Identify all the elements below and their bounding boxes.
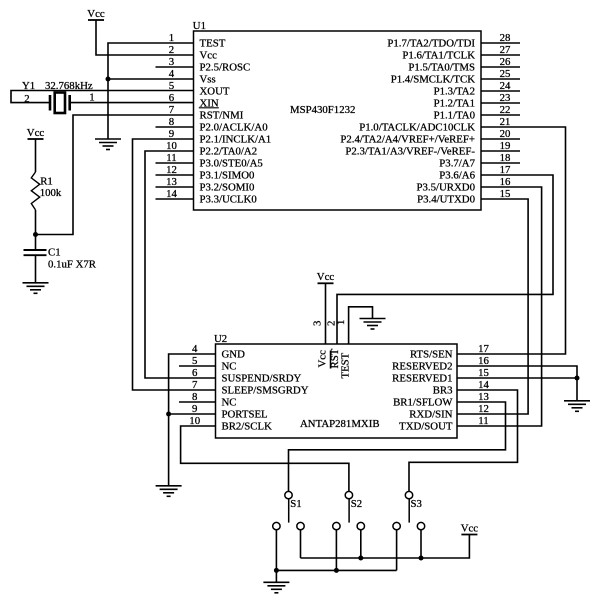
- svg-text:NC: NC: [222, 361, 237, 373]
- IC U1 MSP430F1232 body: [194, 31, 482, 210]
- junction S3 right contact: [419, 556, 424, 561]
- svg-text:32.768kHz: 32.768kHz: [45, 80, 93, 92]
- svg-text:S3: S3: [411, 498, 422, 510]
- wire U1 pin 20 stub: [481, 138, 520, 140]
- wire U1 pin10 P2.2/TA0 to U2 pin6: [145, 151, 216, 378]
- junction R1/C1/RST: [33, 232, 38, 237]
- Vcc symbol (bottom right, switch common): [461, 522, 479, 534]
- Vcc symbol (top left, to U1 pin 2): [87, 8, 105, 20]
- wire Vcc to R1: [35, 139, 37, 172]
- wire U1 pin 22 stub: [481, 114, 520, 116]
- svg-text:S2: S2: [351, 498, 362, 510]
- svg-text:U2: U2: [214, 333, 227, 345]
- wire U1 pin 28 stub: [481, 42, 520, 44]
- svg-text:P3.6/A6: P3.6/A6: [439, 170, 475, 182]
- svg-text:P3.4/UTXD0: P3.4/UTXD0: [417, 194, 475, 206]
- svg-text:Vcc: Vcc: [317, 271, 335, 283]
- wire U1 pin 23 stub: [481, 102, 520, 104]
- svg-text:P3.0/STE0/A5: P3.0/STE0/A5: [200, 158, 263, 170]
- wire S1 left contact to ground: [275, 530, 277, 582]
- svg-text:Vcc: Vcc: [200, 50, 218, 62]
- wire Vcc rail to switches (right contacts): [301, 535, 470, 559]
- svg-text:MSP430F1232: MSP430F1232: [290, 104, 355, 116]
- svg-text:P2.0/ACLK/A0: P2.0/ACLK/A0: [200, 122, 268, 134]
- svg-text:P2.5/ROSC: P2.5/ROSC: [200, 62, 251, 74]
- svg-text:PORTSEL: PORTSEL: [222, 409, 268, 421]
- crystal Y1 right plate: [68, 95, 71, 111]
- crystal Y1 left plate: [49, 95, 52, 111]
- crystal Y1 body: [55, 93, 65, 114]
- svg-text:U1: U1: [193, 20, 206, 32]
- wire U1 pin 8 stub: [156, 126, 194, 128]
- svg-text:100k: 100k: [40, 187, 62, 199]
- wire U1 pin 13 stub: [156, 186, 194, 188]
- wire U1 pin 18 stub: [481, 162, 520, 164]
- switch S3 bottom left contact: [393, 522, 400, 529]
- resistor R1: [31, 172, 39, 210]
- wire S3 left contact down: [396, 530, 398, 571]
- wire U1 pin 19 stub: [481, 150, 520, 152]
- svg-text:P2.4/TA2/A4/VREF+/VeREF+: P2.4/TA2/A4/VREF+/VeREF+: [340, 134, 475, 146]
- switch S1 top contact: [285, 491, 292, 498]
- switch S3 actuator: [408, 499, 410, 523]
- svg-text:Vcc: Vcc: [461, 522, 479, 534]
- svg-text:P1.3/TA2: P1.3/TA2: [434, 86, 475, 98]
- wire U1 pin6 XIN to crystal pin1: [71, 102, 194, 104]
- wire U1 pin 11 stub: [156, 162, 194, 164]
- junction S1 left contact/ground: [274, 568, 279, 573]
- wire junction to C1: [35, 235, 37, 250]
- wire U2 pin15 RESERVED1: [457, 377, 577, 379]
- svg-text:SLEEP/SMSGRDY: SLEEP/SMSGRDY: [222, 385, 309, 397]
- svg-text:ANTAP281MXIB: ANTAP281MXIB: [300, 418, 380, 430]
- svg-text:Vss: Vss: [200, 74, 216, 86]
- switch S3 top contact: [405, 491, 412, 498]
- svg-text:P3.1/SIMO0: P3.1/SIMO0: [200, 170, 255, 182]
- wire U1 pin16 P3.5/URXD0 to U2 pin11 TXD/SOUT: [457, 187, 542, 426]
- svg-text:RTS/SEN: RTS/SEN: [410, 349, 453, 361]
- capacitor C1 top plate: [24, 249, 47, 251]
- switch S2 bottom left contact: [333, 522, 340, 529]
- svg-text:XOUT: XOUT: [200, 86, 230, 98]
- svg-text:NC: NC: [222, 397, 237, 409]
- wire U2 pin13 BR1/SFLOW to switch S1: [289, 402, 506, 491]
- U1 RST overbar (above RST/NMI label): [199, 107, 219, 109]
- wire U2 pin3 Vcc stub: [325, 283, 327, 344]
- svg-text:2: 2: [24, 93, 29, 105]
- wire U1 pin17 P3.6 to U2 pin2 RST: [337, 175, 553, 344]
- wire U1 pin 12 stub: [156, 174, 194, 176]
- svg-text:S1: S1: [290, 498, 301, 510]
- ground (U1 TEST/Vss net): [95, 139, 121, 150]
- Vcc symbol (above U2 pin 3): [317, 271, 335, 283]
- switch S1 actuator: [288, 499, 290, 523]
- ground (U2 RESERVED1/2 net): [564, 401, 590, 412]
- svg-text:P3.7/A7: P3.7/A7: [439, 158, 475, 170]
- wire ground rail (left contacts): [276, 569, 396, 571]
- junction S2 left contact: [334, 568, 339, 573]
- svg-text:R1: R1: [40, 175, 53, 187]
- svg-text:BR3: BR3: [433, 385, 453, 397]
- svg-text:Vcc: Vcc: [87, 8, 105, 20]
- switch S1 bottom right contact: [297, 522, 304, 529]
- wire U2 pin9 PORTSEL to GND net: [169, 413, 216, 415]
- svg-text:P1.5/TA0/TMS: P1.5/TA0/TMS: [408, 62, 475, 74]
- wire U2 pin4 GND to ground: [169, 354, 216, 486]
- wire U1 pin21 P1.0 to U2 pin17 RTS/SEN: [457, 127, 566, 354]
- svg-text:Y1: Y1: [22, 80, 35, 92]
- switch S2 actuator: [348, 499, 350, 523]
- svg-text:Vcc: Vcc: [316, 350, 328, 368]
- svg-text:0.1uF X7R: 0.1uF X7R: [48, 258, 97, 270]
- wire U1 pin15 P3.4/UTXD0 to U2 pin12 RXD/SIN: [457, 199, 528, 414]
- switch S3 bottom right contact: [417, 522, 424, 529]
- wire S1 right contact down: [300, 530, 302, 558]
- svg-text:1: 1: [89, 92, 94, 104]
- junction Vss/TEST/ground: [106, 77, 111, 82]
- svg-text:P1.1/TA0: P1.1/TA0: [434, 110, 475, 122]
- wire U2 pin16 RESERVED2 to ground: [457, 366, 577, 401]
- svg-text:P3.3/UCLK0: P3.3/UCLK0: [200, 194, 257, 206]
- ground (below C1): [23, 283, 49, 294]
- wire U2 pin1 TEST to ground: [349, 307, 373, 344]
- U2 pin 2 RST overbar (rotated): [330, 351, 332, 369]
- svg-text:TEST: TEST: [200, 38, 226, 50]
- svg-text:BR1/SFLOW: BR1/SFLOW: [393, 397, 453, 409]
- ground (U2 TEST pin net): [360, 319, 386, 330]
- svg-text:P2.2/TA0/A2: P2.2/TA0/A2: [200, 146, 258, 158]
- U2 pin 5 NC stub: [179, 365, 216, 367]
- svg-text:RXD/SIN: RXD/SIN: [409, 409, 452, 421]
- wire U1 pin4 Vss to TEST/ground line: [108, 78, 194, 80]
- svg-text:BR2/SCLK: BR2/SCLK: [222, 421, 273, 433]
- junction RESERVED1/RESERVED2: [575, 376, 580, 381]
- wire U1 pin 14 stub: [156, 198, 194, 200]
- wire Vcc to U1 pin2: [96, 20, 194, 55]
- wire U1 pin 25 stub: [481, 78, 520, 80]
- wire U2 pin10 BR2/SCLK to switch S2: [181, 426, 349, 491]
- svg-text:P1.4/SMCLK/TCK: P1.4/SMCLK/TCK: [391, 74, 475, 86]
- svg-text:TXD/SOUT: TXD/SOUT: [399, 421, 453, 433]
- switch S2 bottom right contact: [357, 522, 364, 529]
- switch S2 top contact: [345, 491, 352, 498]
- junction S2 right contact: [358, 556, 363, 561]
- IC U2 ANTAP281MXIB body: [216, 344, 458, 438]
- switch S1 bottom left contact: [273, 522, 280, 529]
- wire U1 pin1 TEST to ground: [108, 43, 194, 139]
- wire U1 pin 3 stub: [156, 66, 194, 68]
- svg-text:P2.3/TA1/A3/VREF-/VeREF-: P2.3/TA1/A3/VREF-/VeREF-: [345, 146, 475, 158]
- svg-text:P1.6/TA1/TCLK: P1.6/TA1/TCLK: [402, 50, 475, 62]
- svg-text:C1: C1: [48, 247, 61, 259]
- svg-text:SUSPEND/SRDY: SUSPEND/SRDY: [222, 373, 302, 385]
- Vcc symbol (above R1): [27, 127, 45, 139]
- wire C1 to ground: [35, 255, 37, 283]
- svg-text:RESERVED2: RESERVED2: [392, 361, 452, 373]
- svg-text:P2.1/INCLK/A1: P2.1/INCLK/A1: [200, 134, 272, 146]
- svg-text:RST/NMI: RST/NMI: [200, 110, 244, 122]
- wire S2 right contact down: [360, 530, 362, 558]
- wire U1 pin9 P2.1/INCLK to U2 pin7: [133, 139, 216, 390]
- svg-text:GND: GND: [222, 349, 246, 361]
- svg-text:3: 3: [312, 321, 324, 326]
- wire U1 pin7 RST/NMI to R1/C1 junction: [36, 115, 194, 235]
- wire R1 to junction: [35, 210, 37, 235]
- ground (U2 GND/PORTSEL net): [156, 486, 182, 497]
- svg-text:Vcc: Vcc: [27, 127, 45, 139]
- wire U2 pin14 BR3 to switch S3: [409, 390, 518, 491]
- wire S2 left contact down: [335, 530, 337, 571]
- wire U1 pin 26 stub: [481, 66, 520, 68]
- wire U1 pin5 XOUT to crystal pin2: [11, 91, 194, 103]
- svg-text:TEST: TEST: [340, 352, 352, 378]
- svg-text:RESERVED1: RESERVED1: [392, 373, 452, 385]
- ground (switch common, bottom): [263, 582, 289, 593]
- svg-text:P3.2/SOMI0: P3.2/SOMI0: [200, 182, 255, 194]
- wire U1 pin 24 stub: [481, 90, 520, 92]
- capacitor C1 bottom plate: [24, 254, 47, 256]
- U2 pin 8 NC stub: [179, 401, 216, 403]
- svg-text:P1.0/TACLK/ADC10CLK: P1.0/TACLK/ADC10CLK: [359, 122, 475, 134]
- wire U1 pin 27 stub: [481, 54, 520, 56]
- svg-text:P1.2/TA1: P1.2/TA1: [434, 98, 475, 110]
- wire S3 right contact down: [420, 530, 422, 558]
- junction PORTSEL/GND: [166, 412, 171, 417]
- svg-text:P1.7/TA2/TDO/TDI: P1.7/TA2/TDO/TDI: [387, 38, 475, 50]
- svg-text:P3.5/URXD0: P3.5/URXD0: [417, 182, 476, 194]
